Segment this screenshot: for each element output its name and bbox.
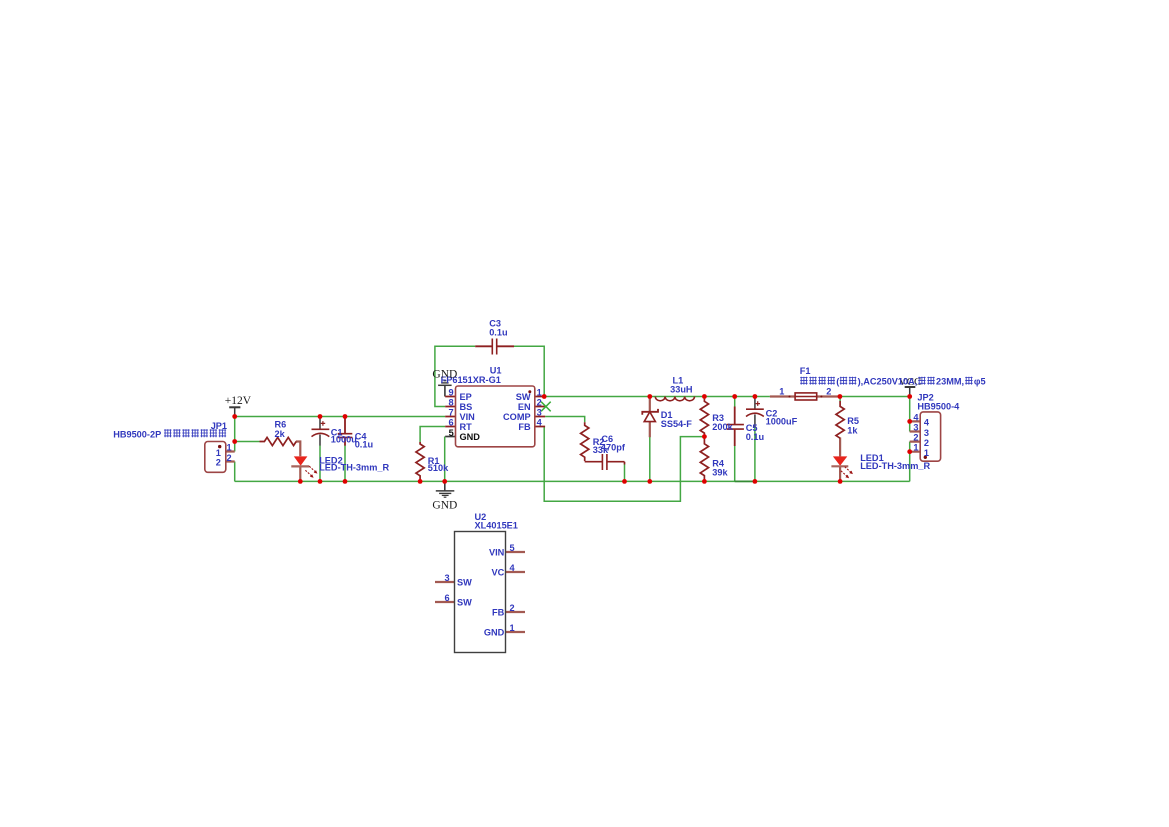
svg-text:33uH: 33uH [670, 385, 693, 395]
svg-text:1: 1 [537, 387, 542, 397]
svg-text:EN: EN [518, 402, 531, 412]
svg-text:470pf: 470pf [601, 443, 626, 453]
svg-text:2: 2 [826, 386, 831, 396]
svg-text:GND: GND [432, 369, 457, 381]
svg-text:2: 2 [924, 438, 929, 448]
svg-text:6: 6 [448, 417, 453, 427]
svg-text:4: 4 [510, 563, 516, 573]
svg-text:SW: SW [457, 598, 472, 608]
svg-text:RT: RT [460, 422, 473, 432]
svg-text:6: 6 [445, 593, 450, 603]
svg-text:510k: 510k [428, 463, 449, 473]
svg-text:GND: GND [460, 432, 481, 442]
svg-text:7: 7 [448, 407, 453, 417]
svg-text:2: 2 [227, 453, 232, 463]
svg-text:HB9500-2P: HB9500-2P [113, 429, 161, 439]
svg-text:F1: F1 [800, 366, 811, 376]
svg-text:+12V: +12V [225, 395, 252, 407]
svg-text:1k: 1k [847, 426, 858, 436]
svg-text:EP: EP [460, 392, 472, 402]
svg-text:SS54-F: SS54-F [661, 419, 693, 429]
svg-text:2k: 2k [275, 429, 286, 439]
svg-text:9: 9 [448, 387, 453, 397]
svg-text:1: 1 [779, 386, 784, 396]
svg-text:23MM,: 23MM, [936, 377, 964, 387]
svg-text:4: 4 [913, 412, 919, 422]
svg-text:LED-TH-3mm_R: LED-TH-3mm_R [319, 463, 389, 473]
svg-text:2: 2 [913, 433, 918, 443]
svg-text:VIN: VIN [460, 412, 476, 422]
svg-text:0.1u: 0.1u [355, 440, 373, 450]
svg-text:1: 1 [913, 443, 918, 453]
svg-text:4: 4 [537, 417, 543, 427]
svg-text:2: 2 [537, 397, 542, 407]
svg-text:VC: VC [492, 568, 505, 578]
svg-text:SW: SW [516, 392, 531, 402]
svg-text:VIN: VIN [489, 548, 505, 558]
svg-text:2: 2 [216, 458, 221, 468]
svg-text:0.1u: 0.1u [746, 432, 764, 442]
svg-text:3: 3 [445, 573, 450, 583]
svg-text:BS: BS [460, 402, 473, 412]
svg-text:1: 1 [510, 623, 515, 633]
svg-text:φ5: φ5 [974, 377, 986, 387]
svg-text:XL4015E1: XL4015E1 [475, 521, 518, 531]
svg-text:R5: R5 [847, 416, 859, 426]
svg-text:2: 2 [510, 603, 515, 613]
svg-text:39k: 39k [712, 468, 728, 478]
svg-text:HB9500-4: HB9500-4 [917, 402, 960, 412]
svg-text:GND: GND [432, 499, 457, 511]
svg-text:FB: FB [492, 608, 505, 618]
svg-text:),AC250V10A,: ),AC250V10A, [858, 377, 918, 387]
svg-text:R6: R6 [275, 419, 287, 429]
svg-text:1: 1 [924, 448, 929, 458]
svg-text:SW: SW [457, 578, 472, 588]
svg-text:LED-TH-3mm_R: LED-TH-3mm_R [860, 461, 930, 471]
svg-text:COMP: COMP [503, 412, 531, 422]
svg-text:5: 5 [510, 543, 515, 553]
svg-text:1000uF: 1000uF [766, 416, 798, 426]
svg-text:8: 8 [448, 397, 453, 407]
svg-text:GND: GND [484, 628, 505, 638]
svg-text:FB: FB [518, 422, 531, 432]
svg-text:0.1u: 0.1u [489, 328, 507, 338]
svg-text:5: 5 [449, 428, 454, 438]
svg-text:1000u: 1000u [331, 435, 357, 445]
svg-text:200k: 200k [712, 422, 733, 432]
svg-text:3: 3 [913, 423, 918, 433]
svg-text:3: 3 [537, 407, 542, 417]
svg-text:1: 1 [227, 443, 232, 453]
svg-text:3: 3 [924, 428, 929, 438]
svg-text:4: 4 [924, 418, 930, 428]
